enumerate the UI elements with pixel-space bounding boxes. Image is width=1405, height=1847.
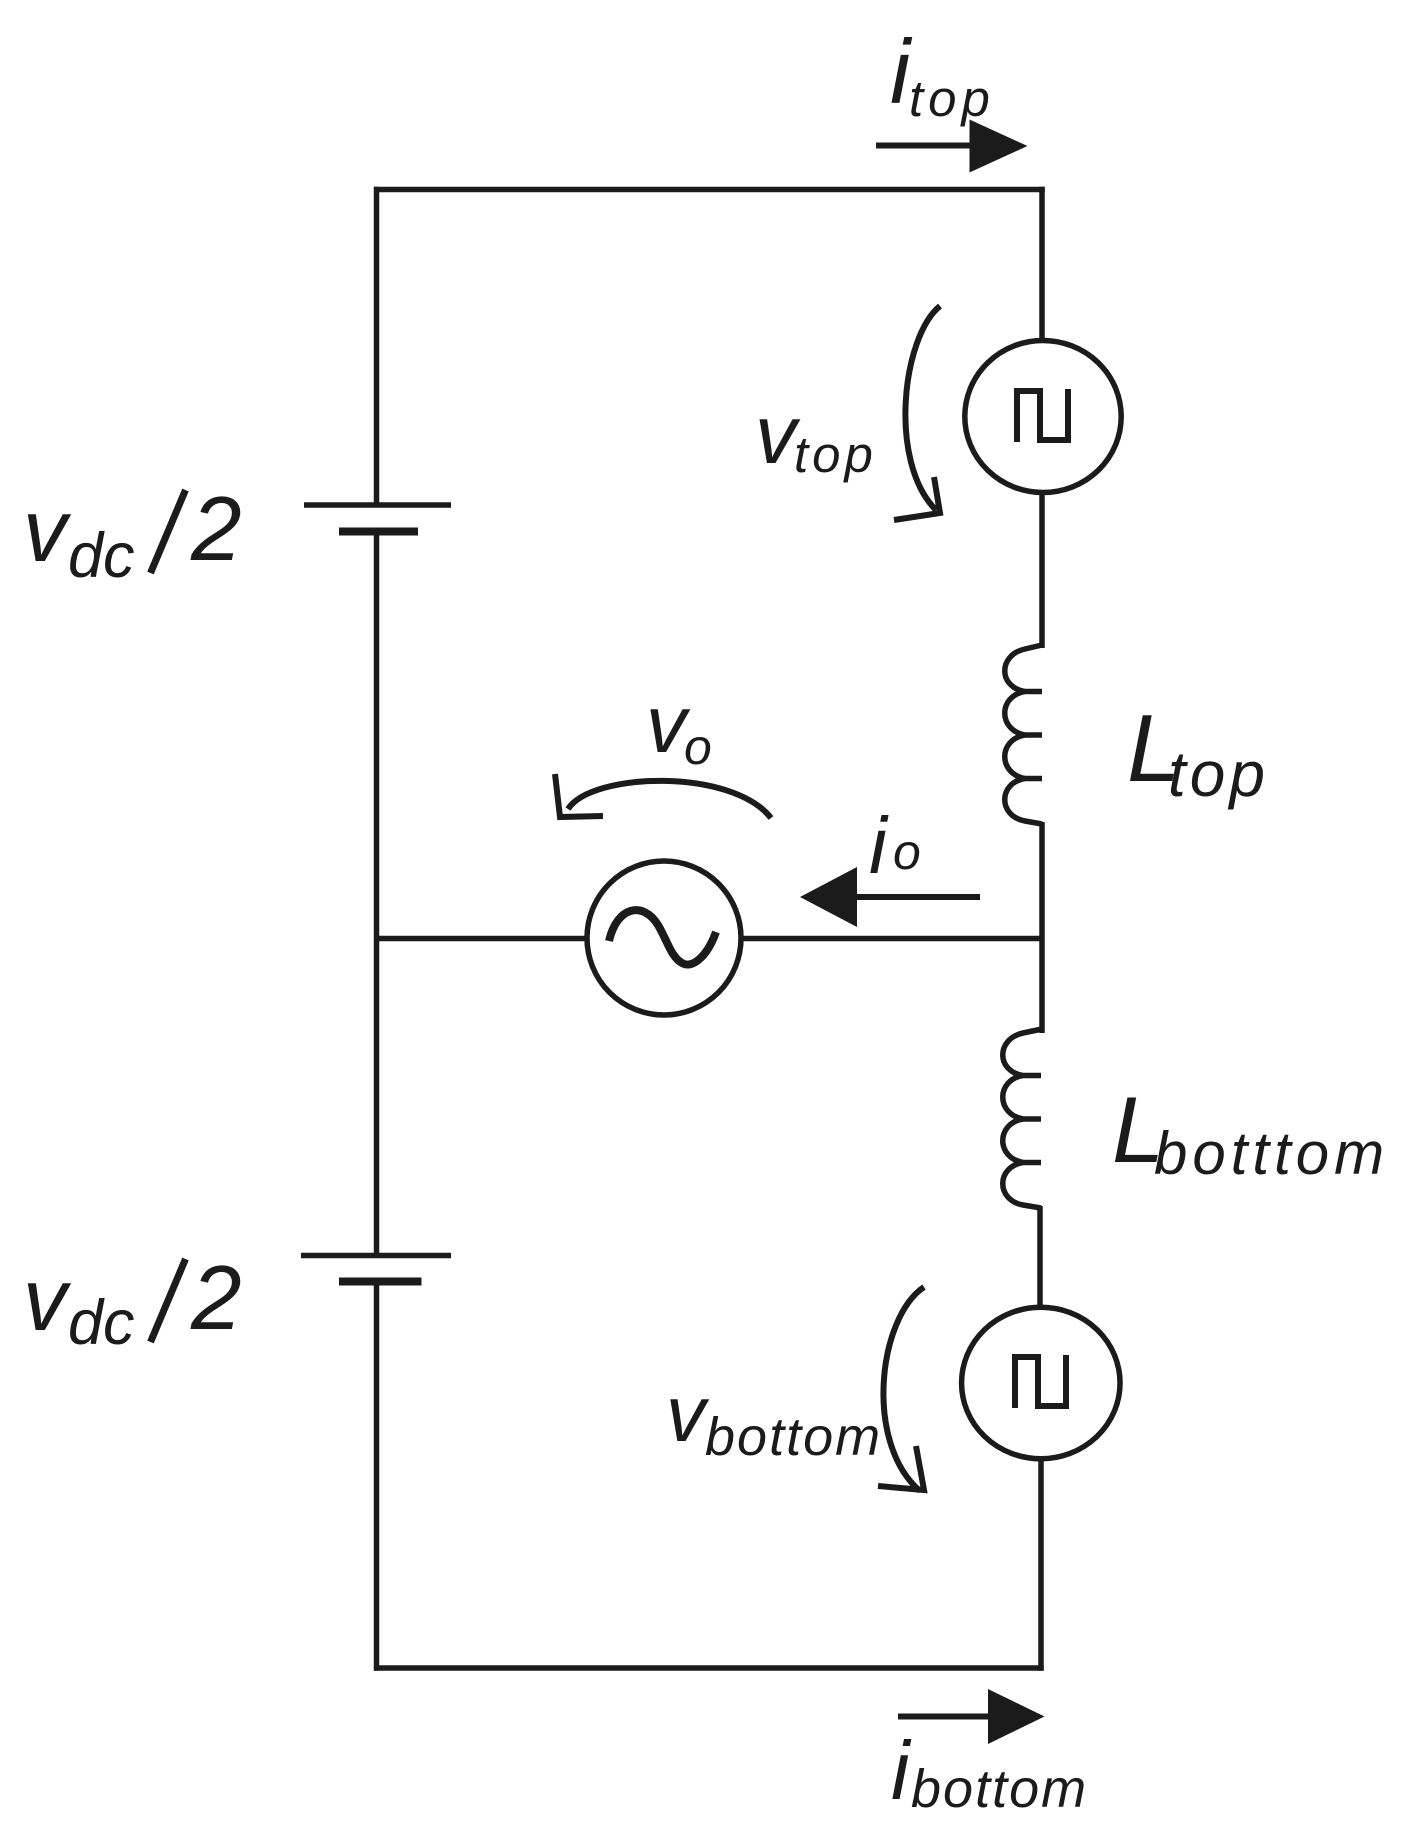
wire right segment to top source <box>1039 187 1045 340</box>
wire middle horizontal right of ac source <box>742 936 1042 942</box>
svg-text:botttom: botttom <box>1154 1120 1389 1187</box>
wire from v_bottom source to bottom wire <box>1038 1460 1044 1671</box>
arrow v_top polarity arc <box>905 306 940 510</box>
arrow i_bottom current arrow <box>898 1689 1045 1744</box>
source v_top circle <box>965 341 1121 493</box>
svg-text:v: v <box>666 1369 710 1458</box>
label v_dc/2 upper slash <box>151 490 186 573</box>
ac source v_o circle <box>587 861 741 1015</box>
svg-text:top: top <box>794 426 877 483</box>
arrow v_bottom arrowhead <box>878 1446 924 1490</box>
wire top horizontal <box>374 187 1045 193</box>
arrow i_o current arrow <box>800 867 980 927</box>
svg-text:dc: dc <box>68 521 135 591</box>
svg-text:i: i <box>869 801 889 890</box>
wire from v_top source to L_top <box>1039 495 1045 648</box>
arrow v_o arrowhead <box>555 774 603 817</box>
inductor L_bottom <box>1003 1029 1042 1208</box>
svg-text:2: 2 <box>190 479 242 580</box>
svg-text:dc: dc <box>68 1288 135 1358</box>
svg-text:top: top <box>909 70 995 127</box>
svg-text:o: o <box>893 824 921 880</box>
battery V2 short plate <box>339 1278 422 1286</box>
battery V1 short plate <box>339 528 418 536</box>
arrow v_bottom polarity arc <box>883 1287 924 1491</box>
source v_bottom square-wave symbol <box>1015 1355 1066 1408</box>
svg-text:v: v <box>23 481 72 580</box>
svg-text:top: top <box>1168 738 1269 810</box>
arrow v_top arrowhead <box>894 477 940 520</box>
battery V1 long plate <box>304 502 451 508</box>
wire from L_top through middle node down to L_bottom <box>1039 822 1045 1033</box>
arrow i_top current arrow <box>876 120 1028 173</box>
source v_top square-wave symbol <box>1017 389 1068 442</box>
label v_dc/2 lower slash <box>151 1259 186 1342</box>
svg-text:bottom: bottom <box>911 1759 1088 1819</box>
arrow v_o polarity arc <box>568 781 771 818</box>
battery V2 long plate <box>301 1253 451 1259</box>
wire from L_bottom to v_bottom source <box>1037 1206 1043 1306</box>
ac source sine symbol <box>609 910 716 964</box>
inductor L_top <box>1005 645 1042 824</box>
wire bottom horizontal <box>374 1665 1044 1671</box>
wire left segment upper <box>374 187 380 505</box>
svg-text:i: i <box>891 1724 912 1817</box>
wire left segment lower <box>374 1282 380 1671</box>
svg-text:bottom: bottom <box>705 1407 882 1467</box>
svg-text:v: v <box>23 1250 72 1349</box>
wire left segment middle <box>374 532 380 1256</box>
svg-text:2: 2 <box>190 1248 242 1349</box>
wire middle horizontal left of ac source <box>374 936 586 942</box>
svg-text:o: o <box>684 719 712 775</box>
source v_bottom circle <box>962 1307 1121 1459</box>
